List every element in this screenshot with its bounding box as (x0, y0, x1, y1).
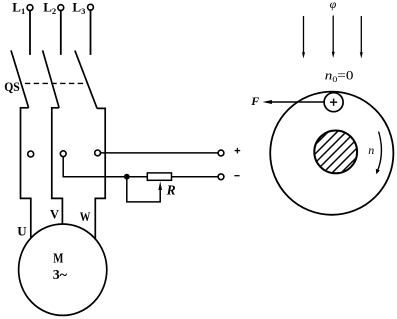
rotation arrow n (376, 132, 382, 175)
conductor circle (plus) (324, 93, 343, 112)
svg-text:L1: L1 (12, 0, 25, 16)
wire W tap to plus terminal (101, 152, 219, 154)
wire pole 2 to motor terminal V (52, 108, 63, 225)
switch QS blade pole 3 (75, 51, 97, 109)
flux arrow 2 (332, 16, 335, 59)
wire L3 drop (90, 10, 92, 55)
wire pole 3 to motor terminal W (95, 108, 105, 239)
terminal plus (218, 150, 224, 156)
switch QS linkage (dashed) (25, 82, 87, 84)
rheostat wiper arrowhead (158, 181, 162, 190)
flux arrow 1 (302, 16, 305, 59)
wire resistor to minus terminal (172, 176, 219, 178)
label plus sign (235, 148, 241, 154)
wire pole 1 to motor terminal U (21, 108, 31, 238)
svg-text:L3: L3 (72, 0, 85, 16)
switch QS blade pole 2 (43, 50, 60, 107)
svg-text:3~: 3~ (53, 268, 68, 283)
svg-text:R: R (166, 184, 176, 199)
svg-text:F: F (250, 94, 259, 108)
switch QS blade pole 1 (11, 50, 29, 107)
stator circle (270, 92, 393, 215)
label minus sign (234, 175, 239, 177)
terminal circle W tap (95, 150, 101, 156)
wire L1 drop (29, 11, 31, 55)
wire rheostat shorting loop (127, 177, 160, 202)
svg-text:L2: L2 (43, 0, 56, 16)
svg-text:U: U (17, 223, 27, 238)
rotor hatched circle (300, 110, 382, 192)
svg-text:φ: φ (330, 0, 337, 11)
svg-text:QS: QS (4, 80, 20, 94)
terminal circle V tap (60, 151, 66, 157)
conductor plus sign (330, 99, 337, 106)
terminal circle U tap (28, 151, 34, 157)
svg-text:n: n (368, 143, 374, 157)
resistor R body (147, 173, 171, 180)
svg-text:W: W (80, 210, 91, 224)
terminal minus (218, 174, 224, 180)
flux arrow 3 (360, 16, 363, 59)
wire V tap drop (63, 157, 147, 177)
force arrow F (262, 100, 324, 104)
terminal L3 (88, 4, 94, 10)
svg-text:V: V (50, 208, 59, 222)
wire L2 drop (60, 11, 62, 55)
motor M circle (19, 224, 107, 315)
terminal L1 (27, 5, 33, 11)
terminal L2 (58, 5, 64, 11)
svg-text:n0=0: n0=0 (325, 68, 354, 85)
junction dot (124, 174, 130, 180)
svg-text:M: M (53, 252, 63, 267)
